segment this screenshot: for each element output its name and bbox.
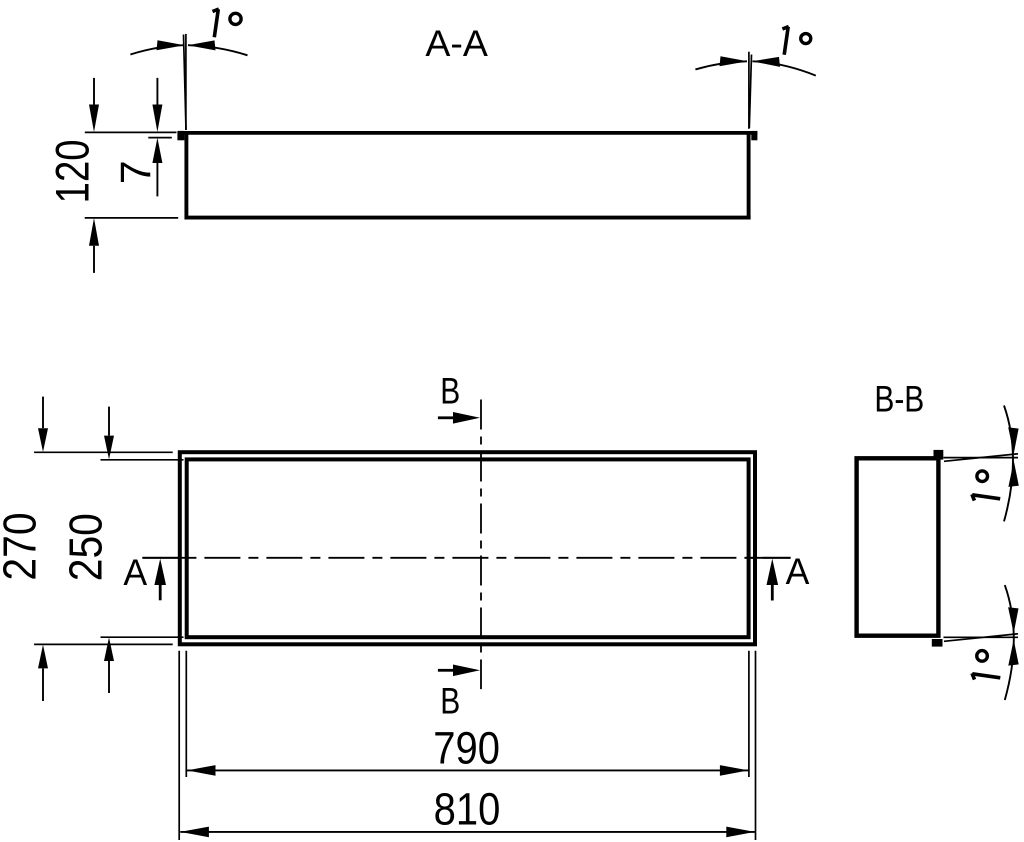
extension lines 810 xyxy=(178,651,180,840)
dimension 810 line + arrows xyxy=(180,831,755,833)
svg-text:A-A: A-A xyxy=(425,22,488,64)
extension line bottom (for 120) xyxy=(85,217,179,219)
svg-text:A: A xyxy=(786,550,810,592)
B-B bottom flange tick xyxy=(932,639,943,647)
vertical B-B cutting line xyxy=(480,400,482,690)
extension lines 250 xyxy=(101,459,184,461)
dimension 120 line + arrows xyxy=(93,78,95,105)
1-degree dim left: extension line pair xyxy=(185,34,187,130)
svg-text:B-B: B-B xyxy=(874,378,924,420)
svg-text:A: A xyxy=(123,551,147,593)
1-degree dim right: arc with arrows xyxy=(695,61,747,69)
svg-text:B: B xyxy=(440,370,460,412)
1-degree dim right: extension line pair xyxy=(748,52,750,129)
dimension 7 line + arrows xyxy=(156,78,158,105)
1-degree text B-B top xyxy=(972,494,1000,500)
section arrow A left xyxy=(159,584,162,600)
1-degree dim B-B bottom: line pair xyxy=(944,636,1019,638)
A-A top face line xyxy=(178,131,758,135)
A-A right flange tick xyxy=(751,131,757,140)
plan outer rectangle 810x270 xyxy=(180,452,755,644)
svg-text:270: 270 xyxy=(0,512,46,580)
extension lines 790 xyxy=(185,651,187,777)
svg-text:810: 810 xyxy=(434,784,501,835)
dimension 270 line + arrows xyxy=(42,397,44,429)
horizontal centerline xyxy=(142,557,790,559)
svg-text:B: B xyxy=(440,680,460,722)
1-degree text left xyxy=(213,9,219,37)
dimension 790 line + arrows xyxy=(187,769,749,771)
svg-text:790: 790 xyxy=(433,723,500,774)
extension lines 270 xyxy=(34,451,173,453)
extension line top (for 120 and 7) xyxy=(85,131,177,133)
svg-text:120: 120 xyxy=(47,139,100,203)
dimension 250 line + arrows xyxy=(108,407,110,436)
A-A left wall xyxy=(184,131,188,219)
1-degree text right xyxy=(782,27,788,55)
1-degree dim B-B top: line pair xyxy=(944,457,1019,459)
A-A right wall xyxy=(747,131,751,219)
section arrow A right xyxy=(771,584,774,601)
B-B rectangle xyxy=(857,458,939,635)
section arrow B bottom xyxy=(438,669,453,672)
extension line for 7 lower xyxy=(148,137,172,139)
1-degree dim left: arc with arrows xyxy=(130,45,184,54)
1-degree text B-B bottom xyxy=(972,673,1000,679)
1-degree dim B-B bottom: arc with arrows xyxy=(1005,585,1014,700)
A-A bottom line xyxy=(185,216,751,220)
svg-text:250: 250 xyxy=(60,513,112,581)
A-A left flange tick xyxy=(177,131,184,140)
B-B top flange tick xyxy=(934,450,944,460)
section arrow B top xyxy=(438,416,453,419)
svg-text:7: 7 xyxy=(112,160,160,184)
1-degree dim B-B top: arc with arrows xyxy=(1004,406,1013,522)
plan inner rectangle 790x250 xyxy=(187,459,749,637)
